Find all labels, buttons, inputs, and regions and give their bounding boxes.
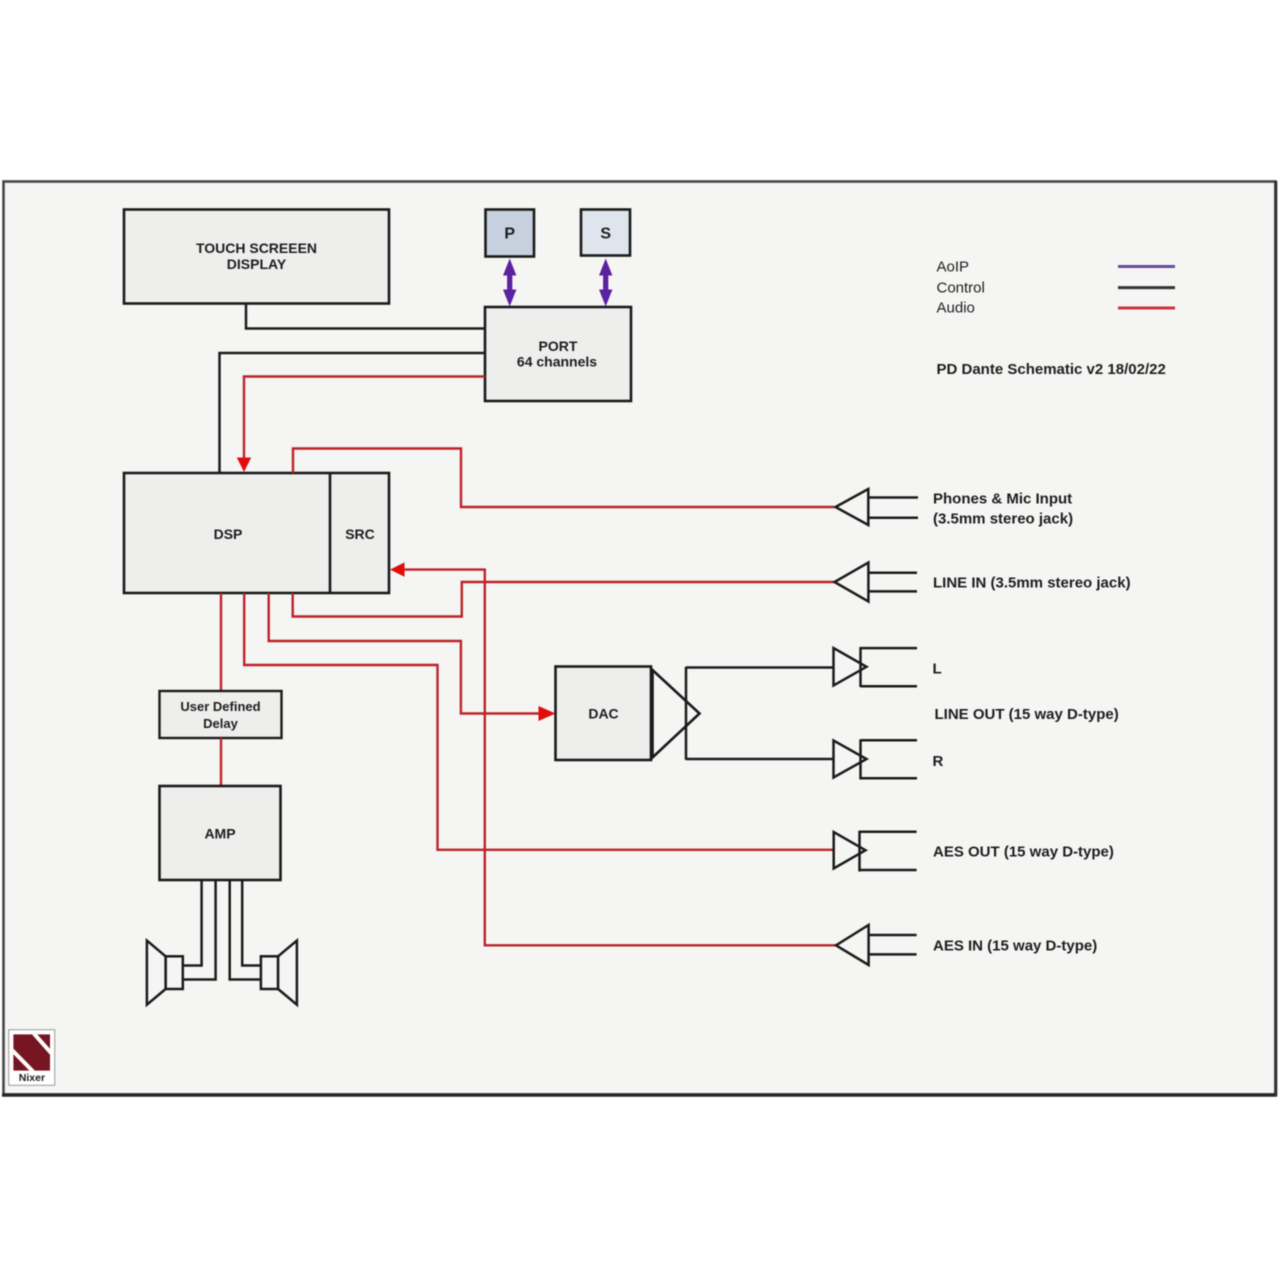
- svg-text:Control: Control: [937, 279, 985, 296]
- bidirectional AoIP arrow P-PORT: [503, 259, 516, 307]
- wire: DSP to DAC (audio, arrow into DAC): [269, 593, 541, 714]
- svg-text:Phones & Mic Input: Phones & Mic Input: [933, 491, 1072, 508]
- LINE IN input buffer: [835, 563, 918, 602]
- svg-text:L: L: [933, 661, 942, 678]
- svg-text:TOUCH SCREEEN: TOUCH SCREEEN: [196, 240, 317, 256]
- svg-text:R: R: [933, 753, 944, 770]
- svg-text:Audio: Audio: [937, 300, 975, 317]
- drawing sheet frame: [4, 182, 1276, 1095]
- DAC output bracket: [685, 667, 688, 760]
- svg-text:DISPLAY: DISPLAY: [227, 256, 287, 272]
- left speaker: [147, 941, 183, 1005]
- block: P (primary port): [486, 210, 535, 257]
- svg-text:PORT: PORT: [539, 338, 578, 354]
- block: DSP: [124, 473, 389, 593]
- svg-text:(3.5mm stereo jack): (3.5mm stereo jack): [933, 511, 1073, 528]
- wire: DAC to R amp: [686, 758, 834, 761]
- svg-text:AES OUT (15 way D-type): AES OUT (15 way D-type): [933, 844, 1114, 861]
- legend: [937, 259, 1176, 317]
- right speaker: [261, 941, 297, 1005]
- wire: DSP to AES OUT (audio): [244, 593, 834, 850]
- svg-text:AES IN (15 way D-type): AES IN (15 way D-type): [933, 938, 1097, 955]
- AES OUT output amp: [834, 831, 917, 872]
- wire: AMP to left speaker (inner): [183, 880, 216, 980]
- legend line Control: [1118, 286, 1175, 289]
- svg-text:Delay: Delay: [203, 716, 238, 731]
- svg-text:Nixer: Nixer: [19, 1072, 45, 1084]
- Phones & Mic input buffer: [836, 489, 919, 525]
- svg-text:PD Dante Schematic v2 18/02/22: PD Dante Schematic v2 18/02/22: [937, 361, 1166, 378]
- wire: DSP to User Defined Delay (audio): [220, 593, 222, 691]
- svg-text:64 channels: 64 channels: [517, 354, 597, 370]
- block: AMP: [160, 786, 281, 880]
- wire: DSP top to Phones & Mic Input (audio): [293, 449, 834, 508]
- Nixer logo: [9, 1030, 55, 1086]
- block: DAC with output driver triangle: [556, 667, 700, 761]
- wire: touch screen to PORT (control): [246, 304, 485, 329]
- legend line AoIP: [1118, 265, 1175, 268]
- wire: AES IN to SRC (audio, arrow into SRC): [404, 570, 836, 946]
- wire: DAC to L amp: [686, 666, 834, 669]
- svg-text:P: P: [504, 226, 515, 243]
- legend line Audio: [1118, 307, 1175, 310]
- wire: User Defined Delay to AMP (audio): [220, 738, 222, 786]
- L output amp: [834, 647, 918, 687]
- svg-text:S: S: [600, 226, 611, 243]
- svg-text:AoIP: AoIP: [937, 259, 970, 276]
- svg-text:DSP: DSP: [214, 526, 243, 542]
- block: TOUCH SCREEEN DISPLAY: [124, 210, 389, 304]
- wire: LINE IN to DSP bottom (audio): [293, 582, 834, 617]
- AES IN input buffer: [836, 925, 917, 965]
- wire: PORT to DSP (control): [220, 353, 486, 473]
- wire: PORT to DSP (audio, arrow into DSP): [244, 377, 485, 459]
- svg-text:User Defined: User Defined: [180, 699, 260, 714]
- svg-text:SRC: SRC: [345, 526, 375, 542]
- svg-text:DAC: DAC: [588, 706, 618, 722]
- svg-text:AMP: AMP: [204, 826, 235, 842]
- wire: AMP to right speaker (outer): [242, 880, 261, 966]
- svg-text:LINE IN (3.5mm stereo jack): LINE IN (3.5mm stereo jack): [933, 575, 1131, 592]
- block: User Defined Delay: [160, 691, 282, 738]
- block: PORT 64 channels: [485, 307, 631, 401]
- block: S (secondary port): [581, 210, 630, 256]
- bidirectional AoIP arrow S-PORT: [599, 259, 612, 307]
- wire: AMP to right speaker (inner): [230, 880, 261, 980]
- R output amp: [834, 739, 918, 779]
- svg-text:LINE OUT (15 way D-type): LINE OUT (15 way D-type): [935, 706, 1119, 723]
- wire: AMP to left speaker (outer): [183, 880, 202, 966]
